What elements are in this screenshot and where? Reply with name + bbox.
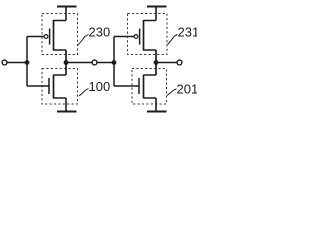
wire PMOS 230 drain to output node bbox=[65, 50, 67, 63]
transistor N201 (NMOS symbol) bbox=[139, 75, 156, 99]
wire input to node A bbox=[7, 62, 27, 64]
ground (right inverter) bbox=[147, 111, 167, 113]
wire node D to NMOS 201 drain bbox=[155, 63, 157, 76]
ground (left inverter) bbox=[57, 111, 77, 113]
transistor box 201 (dashed) bbox=[132, 69, 167, 105]
svg-text:100: 100 bbox=[89, 79, 111, 94]
wire NMOS 201 source to ground bbox=[155, 98, 157, 112]
svg-text:231: 231 bbox=[178, 25, 198, 40]
wire to PMOS 230 gate bbox=[27, 36, 44, 38]
output terminal bbox=[177, 60, 182, 65]
transistor N100 (NMOS symbol) bbox=[49, 75, 66, 99]
node A (input gates junction) bbox=[25, 60, 30, 65]
wire VDD stem to PMOS 231 source bbox=[155, 7, 157, 21]
transistor box 230 (dashed) bbox=[42, 14, 78, 55]
wire output node to NMOS 100 drain bbox=[65, 63, 67, 76]
transistor P230 (PMOS symbol) bbox=[44, 20, 66, 51]
wire gate bus of inverter 2 bbox=[113, 37, 115, 87]
input terminal bbox=[2, 60, 7, 65]
mid node terminal bbox=[92, 60, 97, 65]
transistor P231 (PMOS symbol) bbox=[134, 20, 156, 51]
wire VDD stem to PMOS 230 source bbox=[65, 7, 67, 21]
leader line for 230 bbox=[78, 35, 89, 46]
transistor box 231 (dashed) bbox=[128, 14, 168, 55]
wire node B to mid terminal bbox=[66, 62, 92, 64]
wire mid terminal to node C bbox=[97, 62, 114, 64]
power rail VDD (left inverter) bbox=[57, 6, 77, 8]
wire NMOS 100 source to ground bbox=[65, 98, 67, 112]
wire to PMOS 231 gate bbox=[114, 36, 134, 38]
svg-text:201: 201 bbox=[177, 82, 198, 97]
wire to NMOS 201 gate bbox=[114, 85, 139, 87]
node C (input gates junction, inverter 2) bbox=[112, 60, 117, 65]
wire PMOS 231 drain to output node bbox=[155, 50, 157, 63]
power rail VDD (right inverter) bbox=[147, 6, 167, 8]
wire to NMOS 100 gate bbox=[27, 85, 49, 87]
leader line for 100 bbox=[79, 89, 89, 97]
node B (output of inverter 1) bbox=[64, 60, 69, 65]
wire gate bus of inverter 1 bbox=[26, 37, 28, 87]
svg-text:230: 230 bbox=[89, 25, 111, 40]
node D (output of inverter 2) bbox=[154, 60, 159, 65]
wire node D to output terminal bbox=[156, 62, 177, 64]
transistor box 100 (dashed) bbox=[42, 69, 78, 105]
leader line for 231 bbox=[168, 35, 178, 45]
leader line for 201 bbox=[167, 89, 177, 96]
